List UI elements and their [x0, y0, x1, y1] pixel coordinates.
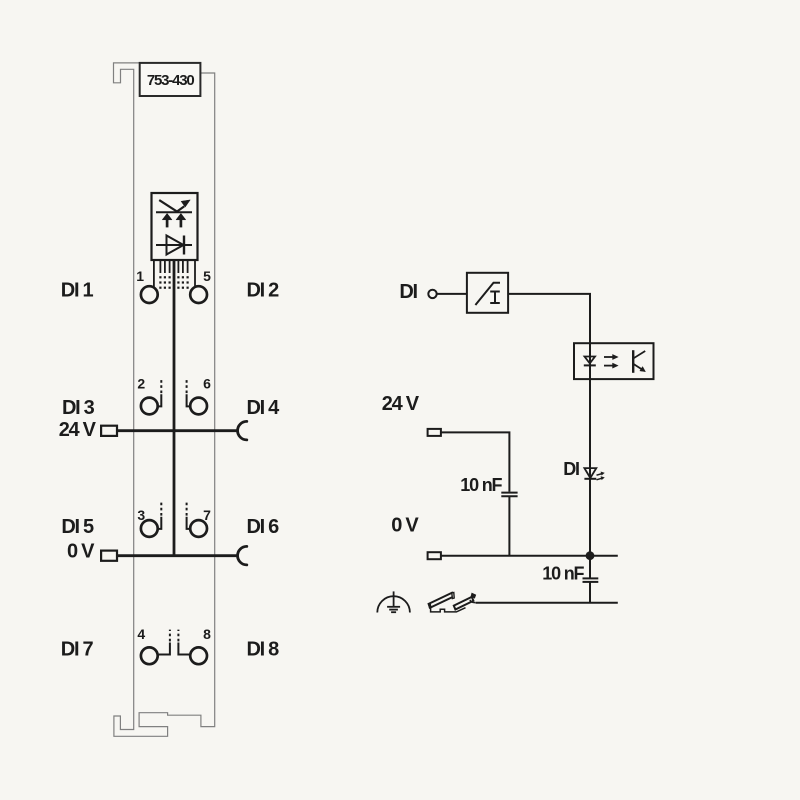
24V terminal box: [101, 426, 117, 436]
optocoupler box: [574, 343, 654, 379]
LED block pins: [154, 260, 195, 287]
svg-text:6: 6: [203, 376, 211, 392]
wire junction to capacitor C2: [589, 556, 591, 579]
wire optocoupler to junction: [589, 379, 591, 556]
terminal 6: [190, 398, 207, 415]
svg-text:1: 1: [136, 268, 144, 284]
svg-text:0 V: 0 V: [391, 514, 419, 536]
contact mark terminal 6: [187, 378, 191, 406]
junction node: [586, 551, 595, 560]
module outline: [114, 63, 215, 736]
contact mark terminal 8: [178, 630, 189, 655]
left flange: [429, 593, 454, 608]
capacitor C1: [501, 493, 517, 497]
svg-text:3: 3: [137, 507, 145, 523]
optocoupler LED: [584, 357, 596, 366]
status LED emission arrows: [597, 472, 605, 480]
wire 24V to capacitor: [441, 432, 510, 491]
svg-text:DI 5: DI 5: [61, 516, 94, 538]
svg-text:DI 3: DI 3: [62, 397, 95, 419]
right flange end flag: [471, 593, 477, 599]
svg-text:DI 4: DI 4: [247, 397, 281, 419]
DI input terminal: [428, 290, 436, 298]
svg-text:4: 4: [137, 626, 145, 642]
wire capacitor C1 to 0V: [508, 496, 510, 555]
0V terminal box: [101, 551, 117, 561]
right flange: [454, 597, 474, 610]
svg-text:DI 8: DI 8: [247, 638, 280, 660]
optocoupler light arrows: [604, 354, 618, 368]
pin dots: [159, 276, 188, 289]
wire DI to filter: [437, 293, 467, 295]
terminal 3: [141, 520, 158, 537]
capacitor C2: [583, 578, 599, 582]
contact mark terminal 2: [158, 378, 162, 406]
LED block: cathode bar: [156, 211, 192, 213]
left flange end cap: [428, 603, 431, 608]
svg-text:753-430: 753-430: [147, 72, 195, 89]
svg-text:DI 2: DI 2: [247, 279, 280, 301]
status LED DI: [584, 468, 596, 479]
0V bus wire: [117, 554, 237, 557]
filter symbol slope: [475, 283, 500, 305]
24V bus hook: [238, 421, 247, 440]
svg-text:DI: DI: [399, 281, 417, 303]
svg-text:DI 1: DI 1: [61, 279, 94, 301]
earth ground symbol: [377, 591, 410, 612]
terminal 7: [190, 520, 207, 537]
LED block: right LED arrow: [176, 213, 186, 227]
contact mark terminal 3: [158, 501, 162, 529]
svg-text:2: 2: [137, 376, 145, 392]
DIN rail symbol: [428, 593, 476, 612]
wire filter to optocoupler: [508, 294, 590, 343]
terminal 5: [190, 286, 207, 303]
svg-text:24 V: 24 V: [59, 419, 97, 441]
center bus wire: [173, 260, 176, 556]
wire capacitor C2 to bottom rail: [589, 582, 591, 603]
svg-text:0 V: 0 V: [67, 540, 95, 562]
terminal 4: [141, 647, 158, 664]
rail front profile: [431, 606, 466, 612]
filter symbol I: [490, 292, 500, 304]
svg-text:10 nF: 10 nF: [460, 475, 502, 495]
terminal 8: [190, 647, 207, 664]
terminal 1: [141, 286, 158, 303]
svg-text:5: 5: [203, 268, 211, 284]
optocoupler wire through: [589, 343, 591, 379]
rail edge curl: [470, 600, 475, 603]
svg-text:8: 8: [203, 626, 211, 642]
0V bus hook: [238, 546, 247, 565]
contact mark terminal 7: [187, 501, 191, 529]
svg-text:DI 7: DI 7: [61, 638, 94, 660]
0V terminal right: [428, 552, 441, 559]
LED indicator block U1: [152, 193, 198, 260]
svg-text:DI: DI: [563, 459, 579, 479]
contact mark terminal 4: [159, 630, 170, 655]
svg-text:10 nF: 10 nF: [542, 563, 584, 583]
channel inner wall: [452, 593, 454, 599]
LED block: left LED arrow: [162, 213, 172, 227]
LED block: emission arrow: [159, 200, 190, 212]
terminal 2: [141, 398, 158, 415]
svg-text:24 V: 24 V: [382, 393, 420, 415]
0V wire: [441, 555, 618, 557]
filter box: [467, 273, 508, 313]
24V terminal right: [428, 429, 441, 436]
optocoupler phototransistor: [633, 350, 645, 373]
svg-text:7: 7: [203, 507, 211, 523]
bottom rail wire: [476, 602, 618, 604]
LED block: diode D1: [156, 236, 192, 255]
label box 753-430: [140, 63, 201, 96]
svg-text:DI 6: DI 6: [247, 516, 280, 538]
24V bus wire: [117, 429, 237, 432]
